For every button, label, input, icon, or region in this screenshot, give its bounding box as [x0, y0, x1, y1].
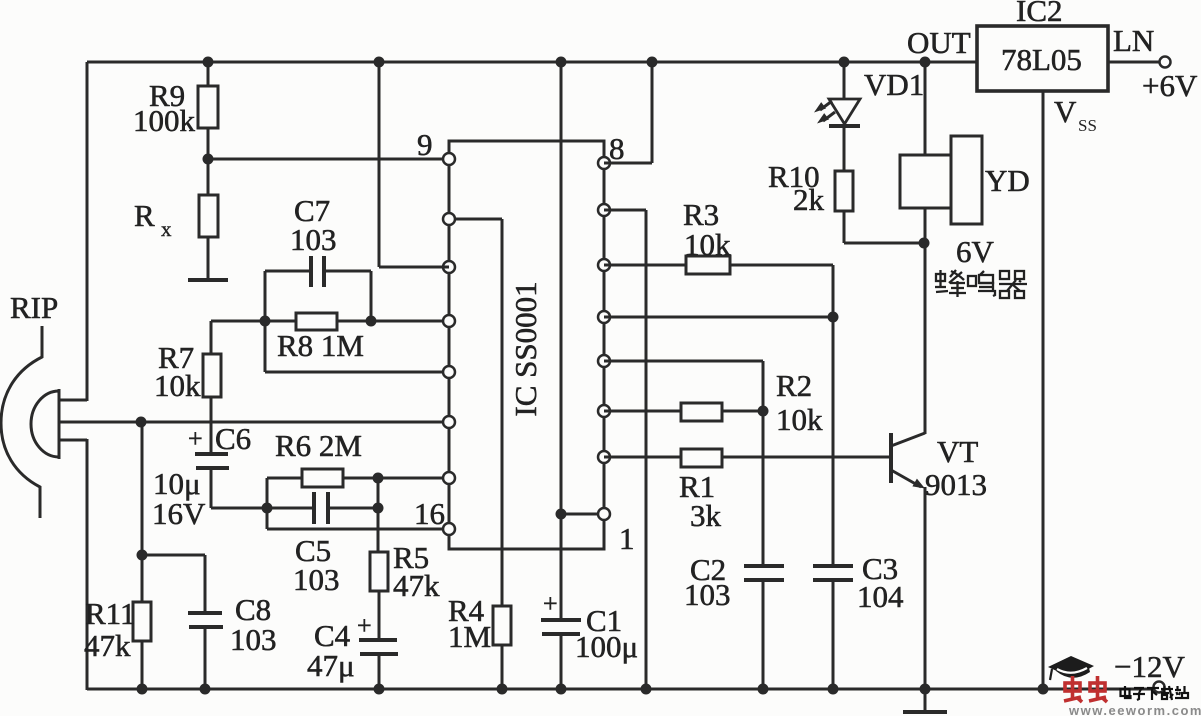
node junction emitter ground	[920, 684, 931, 695]
label pin 1	[619, 521, 635, 556]
label C3 104	[857, 551, 904, 614]
label C1 plus 100u	[543, 589, 638, 664]
resistor R4	[493, 606, 511, 689]
wire pin 7 feed	[378, 477, 449, 480]
wire rail down to pin 3-left	[379, 62, 449, 267]
label C2 103	[684, 552, 731, 612]
resistor R11	[133, 602, 151, 689]
wire bottom ground rail	[87, 688, 1154, 691]
wire left border lower (mic bottom terminal to ground rail)	[86, 439, 89, 690]
LED VD1 light arrows	[814, 101, 835, 124]
svg-text:9: 9	[417, 127, 433, 162]
label IC SS0001	[508, 281, 543, 416]
wire pin 4-right feed	[604, 316, 833, 319]
label R11 47k	[84, 596, 136, 663]
capacitor C3	[813, 566, 853, 689]
svg-text:R2: R2	[776, 368, 812, 403]
svg-text:VD1: VD1	[864, 67, 924, 102]
microphone RIP	[1, 326, 87, 518]
label pin 16	[414, 496, 445, 531]
resistor R3	[604, 256, 833, 274]
node junction mic/R11	[136, 417, 147, 428]
capacitor C8	[142, 555, 223, 689]
node terminal -12V	[1154, 682, 1165, 693]
node junction R8 left / C7 / R7	[260, 316, 271, 327]
svg-text:16: 16	[414, 496, 445, 531]
LED VD1	[829, 62, 860, 171]
resistor R10	[835, 171, 924, 243]
label VT 9013	[925, 434, 987, 502]
node junction pin8 rail	[647, 57, 658, 68]
buzzer YD	[900, 136, 982, 224]
node junction C1 ground	[556, 684, 567, 695]
label R1 3k	[679, 469, 722, 533]
label -12V	[1114, 649, 1185, 684]
wire R8 left node to R7 top	[211, 320, 265, 323]
svg-text:3k: 3k	[690, 498, 722, 533]
capacitor C4 electrolytic	[359, 640, 398, 689]
node junction R10/collector	[919, 238, 930, 249]
svg-text:9013: 9013	[925, 467, 987, 502]
svg-text:2k: 2k	[793, 182, 825, 217]
node junction C6/C5 left	[262, 503, 273, 514]
svg-text:C6: C6	[215, 421, 251, 456]
voltage regulator IC2 78L05	[977, 26, 1108, 91]
label OUT	[907, 25, 971, 60]
label buzzer chinese ming	[968, 271, 995, 296]
svg-text:47k: 47k	[393, 568, 440, 603]
watermark chinese dian	[1121, 686, 1131, 698]
node junction C8 ground	[200, 684, 211, 695]
svg-text:47k: 47k	[84, 628, 131, 663]
wire R6-C5 right vertical to R5	[377, 478, 380, 552]
svg-text:10k: 10k	[684, 227, 731, 262]
capacitor C6 electrolytic	[195, 454, 267, 508]
ground under Rx	[188, 278, 228, 282]
svg-text:IC SS0001: IC SS0001	[508, 281, 543, 416]
svg-text:+: +	[543, 589, 558, 618]
wire left border upper (mic top terminal to rail)	[86, 62, 89, 401]
wire pin 2-right down to ground rail	[604, 210, 646, 689]
svg-text:OUT: OUT	[907, 25, 971, 60]
svg-text:103: 103	[290, 222, 337, 257]
svg-text:1: 1	[619, 521, 635, 556]
svg-text:103: 103	[293, 562, 340, 597]
pin 7-right circle	[598, 451, 610, 463]
wire pin 1 feed	[561, 513, 604, 516]
wire pin 5-right to R2 node	[604, 361, 763, 411]
wire top +supply rail	[87, 61, 977, 64]
svg-text:V: V	[1054, 94, 1077, 129]
wire top rail through IC to pin 1 and C1	[560, 62, 563, 620]
svg-text:104: 104	[857, 579, 904, 614]
svg-text:10k: 10k	[154, 368, 201, 403]
svg-text:+: +	[357, 611, 372, 640]
svg-text:8: 8	[609, 131, 625, 166]
label YD	[985, 163, 1030, 198]
node junction C3 ground	[828, 684, 839, 695]
pin 16 circle	[443, 523, 455, 535]
wire buzzer to collector	[924, 208, 927, 434]
svg-text:R6 2M: R6 2M	[275, 428, 362, 463]
label C4 plus 47u	[307, 611, 372, 683]
svg-text:100k: 100k	[133, 103, 196, 138]
label R9 100k	[133, 78, 196, 138]
wire pin 8 up to rail	[604, 62, 652, 163]
label buzzer chinese qi	[999, 271, 1027, 298]
node junction C5 right / R5	[373, 503, 384, 514]
pin 9 circle	[443, 153, 455, 165]
label R5 47k	[393, 540, 440, 603]
node junction R8 right / C7 / pin4	[366, 316, 377, 327]
label RIP	[10, 290, 58, 325]
pin 3-left circle	[443, 261, 455, 273]
svg-text:78L05: 78L05	[1001, 42, 1082, 77]
svg-text:+6V: +6V	[1142, 68, 1198, 103]
wire R3 right vertical to C3	[832, 265, 835, 566]
resistor R2	[604, 403, 763, 421]
capacitor C7	[265, 256, 371, 321]
svg-text:R: R	[134, 198, 155, 233]
node junction rail/pin3 branch	[374, 57, 385, 68]
node junction R6 right / pin 7	[373, 473, 384, 484]
svg-text:47μ: 47μ	[307, 648, 355, 683]
label 6V	[956, 234, 995, 269]
watermark chinese zhan	[1175, 686, 1188, 698]
svg-text:R11: R11	[85, 596, 136, 631]
wire mic node down to R11/C8	[141, 422, 144, 602]
label C7 103	[290, 193, 337, 257]
wire pin 16 feed	[267, 528, 449, 531]
node junction rail/C1 branch	[556, 57, 567, 68]
label VD1	[864, 67, 924, 102]
wire IC pin 2-left to R4	[449, 219, 502, 606]
svg-text:R8 1M: R8 1M	[277, 328, 364, 363]
svg-text:VT: VT	[937, 434, 978, 469]
wire mic signal line to pin 6	[59, 421, 449, 424]
pin 7-left circle	[443, 472, 455, 484]
node junction R11/C8	[137, 550, 148, 561]
watermark chinese zai	[1161, 686, 1173, 700]
svg-text:103: 103	[230, 622, 277, 657]
pin 4-right circle	[598, 311, 610, 323]
resistor R9	[198, 62, 218, 159]
resistor R8	[265, 313, 371, 330]
watermark chinese zi	[1133, 688, 1145, 700]
resistor Rx	[199, 159, 218, 280]
label LN	[1113, 23, 1154, 58]
pin 1 circle	[598, 508, 610, 520]
wire IC2 output to +6V terminal	[1108, 61, 1160, 64]
pin 5-right circle	[598, 355, 610, 367]
op-amp U1 IC SS0001 box	[449, 141, 604, 549]
capacitor C1 electrolytic	[541, 620, 581, 689]
svg-text:1M: 1M	[448, 619, 491, 654]
node junction pin4/R3	[828, 312, 839, 323]
label IC2	[1016, 0, 1063, 28]
wire C5-R6 left vertical	[266, 478, 269, 529]
node terminal +6V	[1160, 57, 1171, 68]
svg-text:−12V: −12V	[1114, 649, 1185, 684]
svg-text:www.eeworm.com: www.eeworm.com	[1068, 703, 1201, 716]
svg-text:YD: YD	[985, 163, 1030, 198]
label Vss	[1054, 94, 1097, 135]
label R6 2M	[275, 428, 362, 463]
label +6V	[1142, 68, 1198, 103]
wire R8 node to pin 4	[371, 320, 449, 323]
node junction OUT	[920, 57, 931, 68]
node junction pin 1 tap	[556, 509, 567, 520]
node junction R2/pin5	[758, 406, 769, 417]
label R4 1M	[448, 593, 491, 654]
pin 4-left circle	[443, 315, 455, 327]
node junction R4 ground	[497, 684, 508, 695]
node junction pin2 ground	[641, 684, 652, 695]
label buzzer chinese feng	[935, 270, 966, 297]
wire R8 left node down to pin 5	[265, 321, 449, 372]
pin 2-right circle	[598, 204, 610, 216]
node junction R9 top rail	[203, 57, 214, 68]
wire Vss down to ground rail	[1042, 91, 1045, 689]
label 78L05	[1001, 42, 1082, 77]
svg-text:SS: SS	[1078, 116, 1097, 135]
watermark chinese xia	[1147, 688, 1159, 700]
label pin 8	[609, 131, 625, 166]
wire pin 9 feed	[208, 158, 449, 161]
node junction VD1 rail	[839, 57, 850, 68]
capacitor C5	[267, 492, 378, 524]
svg-text:10k: 10k	[776, 402, 823, 437]
node junction R11 ground	[137, 684, 148, 695]
pin 3-right circle	[598, 259, 610, 271]
label C6 plus 10u 16V	[152, 421, 251, 531]
resistor R5	[370, 552, 388, 640]
svg-text:x: x	[161, 217, 172, 241]
node junction C2 ground	[758, 684, 769, 695]
node junction R9/Rx/pin9	[203, 154, 214, 165]
wire OUT down to buzzer	[924, 62, 927, 155]
svg-text:16V: 16V	[152, 496, 206, 531]
label R7 10k	[154, 340, 201, 403]
pin 8 circle	[598, 157, 610, 169]
pin 2-left circle	[443, 213, 455, 225]
label R2 10k	[776, 368, 823, 437]
ground symbol below emitter	[903, 689, 947, 712]
svg-text:6V: 6V	[956, 234, 995, 269]
label C8 103	[230, 592, 277, 657]
label R3 10k	[683, 197, 731, 262]
watermark chinese chong 2 red	[1089, 676, 1107, 702]
pin 5-left circle	[443, 366, 455, 378]
label Rx	[134, 198, 172, 241]
resistor R6	[267, 469, 378, 487]
label R8 1M	[277, 328, 364, 363]
label C5 103	[293, 533, 340, 597]
svg-text:LN: LN	[1113, 23, 1154, 58]
svg-text:100μ: 100μ	[575, 629, 638, 664]
resistor R7	[203, 321, 221, 454]
svg-text:+: +	[188, 424, 203, 453]
watermark chinese chong 1 red	[1064, 676, 1082, 702]
capacitor C2	[744, 566, 784, 689]
watermark url www.eeworm.com	[1068, 703, 1201, 716]
pin 6-right circle	[598, 405, 610, 417]
resistor R1	[604, 449, 891, 467]
svg-text:IC2: IC2	[1016, 0, 1063, 28]
wire R2 node down to C2	[762, 411, 765, 566]
node junction Vss ground	[1038, 684, 1049, 695]
transistor Q VT 9013	[891, 433, 925, 689]
watermark graduation cap icon	[1048, 656, 1094, 680]
label pin 9	[417, 127, 433, 162]
svg-text:RIP: RIP	[10, 290, 58, 325]
pin 6-left circle	[443, 416, 455, 428]
label R10 2k	[768, 159, 825, 217]
svg-text:103: 103	[684, 577, 731, 612]
node junction C4 ground	[374, 684, 385, 695]
